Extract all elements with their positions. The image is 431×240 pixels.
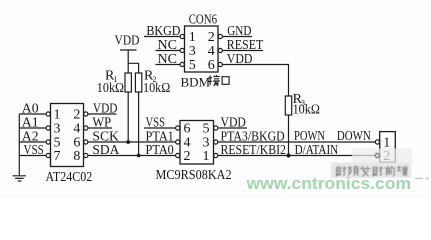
svg-text:CON6: CON6 <box>189 13 217 28</box>
pin 5 circle U1 <box>46 140 50 144</box>
svg-text:2: 2 <box>184 149 191 164</box>
glyph 前 <box>385 166 396 176</box>
wire GND stub J1 pin2 <box>223 36 253 38</box>
svg-text:2: 2 <box>73 108 80 123</box>
svg-text:BKGD: BKGD <box>146 24 180 39</box>
wire NC stub J1 pin3 <box>156 50 181 52</box>
svg-text:www.cntronics.com: www.cntronics.com <box>245 174 411 193</box>
pin 1 circle U2 <box>214 153 218 157</box>
wire R2 bottom to SDA <box>138 92 140 156</box>
svg-text:A0: A0 <box>22 101 39 116</box>
label 射频发射前端 (grey) <box>331 149 412 179</box>
pin 3 circle J1 <box>180 48 184 52</box>
pin 5 circle J1 <box>180 62 184 66</box>
svg-text:4: 4 <box>73 122 80 137</box>
pin 7 circle U1 <box>46 153 50 157</box>
glyph 发 <box>360 166 370 176</box>
pin 6 circle U2 <box>176 126 180 130</box>
svg-text:VDD: VDD <box>93 101 118 116</box>
pin 2 circle U2 <box>176 153 180 157</box>
connector J1 CON6 box <box>185 26 219 72</box>
pin 1 circle J3 <box>375 140 379 144</box>
wire VSS stub U2 pin6 <box>144 127 176 129</box>
pin 2 circle J3 <box>375 153 379 157</box>
wire left bus to ground <box>18 114 20 176</box>
svg-text:VSS: VSS <box>146 115 166 130</box>
svg-text:1: 1 <box>189 30 196 45</box>
svg-text:VDD: VDD <box>227 52 253 67</box>
glyph 口 <box>222 77 229 85</box>
ground <box>13 176 26 181</box>
svg-text:POWN: POWN <box>294 129 325 144</box>
pin 2 circle J1 <box>218 34 222 38</box>
svg-text:VDD: VDD <box>115 34 140 49</box>
wire SDA net U1 pin8 to U2 pin2 <box>88 155 176 157</box>
wire RESET stub J1 pin4 <box>223 50 264 52</box>
pin 2 circle U1 <box>84 112 88 116</box>
svg-text:4: 4 <box>208 44 215 59</box>
pin 4 circle U2 <box>176 140 180 144</box>
wire WP stub U1 pin4 <box>88 127 112 129</box>
svg-text:VDD: VDD <box>221 115 246 130</box>
junction R1-SCK <box>126 140 130 144</box>
svg-text:BDM: BDM <box>181 75 211 90</box>
pin 6 circle J1 <box>218 62 222 66</box>
svg-text:A1: A1 <box>22 115 39 130</box>
label BDM接口 <box>181 75 230 90</box>
glyph 射 <box>372 166 383 176</box>
glyph 频 <box>348 166 359 176</box>
wire VDD stub U2 pin5 <box>218 127 247 129</box>
svg-text:NC: NC <box>158 52 178 67</box>
svg-text:1: 1 <box>383 135 390 150</box>
IC U2 MC9RS08KA2 box <box>180 121 214 165</box>
pin 3 circle U2 <box>214 140 218 144</box>
wire VDD stub U1 pin2 <box>88 113 117 115</box>
svg-text:6: 6 <box>184 122 191 137</box>
pin 5 circle U2 <box>214 126 218 130</box>
resistor R2 body <box>135 73 141 92</box>
svg-text:1: 1 <box>203 149 210 164</box>
wire R1 bottom to SCK <box>127 92 129 142</box>
svg-text:5: 5 <box>203 122 210 137</box>
wire NC stub J1 pin5 <box>156 64 181 66</box>
pin 1 circle J1 <box>180 34 184 38</box>
pin 4 circle J1 <box>218 48 222 52</box>
svg-text:AT24C02: AT24C02 <box>46 170 93 185</box>
glyph 接 <box>208 75 220 86</box>
svg-text:8: 8 <box>73 149 80 164</box>
junction R2-SDA <box>137 154 141 158</box>
svg-text:1: 1 <box>54 108 61 123</box>
IC U1 AT24C02 box <box>51 104 84 167</box>
svg-text:GND: GND <box>227 24 251 39</box>
pin 6 circle U1 <box>84 140 88 144</box>
svg-text:RESET: RESET <box>227 38 264 53</box>
VDD power symbol bar <box>120 50 137 73</box>
connector J3 RF box <box>380 132 396 163</box>
svg-text:5: 5 <box>189 58 196 73</box>
wire A2 <box>19 141 46 143</box>
resistor R3 body <box>285 96 291 115</box>
svg-text:7: 7 <box>54 149 61 164</box>
svg-text:D/ATAIN: D/ATAIN <box>295 143 339 158</box>
svg-text:6: 6 <box>208 58 215 73</box>
glyph 端 <box>397 166 408 176</box>
wire BKGD stub J1 pin1 <box>144 36 180 38</box>
glyph 射 <box>336 166 347 176</box>
svg-text:10kΩ: 10kΩ <box>143 81 170 96</box>
junction R3-RESET <box>286 153 290 157</box>
wire A0 <box>19 113 46 115</box>
svg-text:3: 3 <box>189 44 196 59</box>
pin 8 circle U1 <box>84 153 88 157</box>
svg-text:VSS: VSS <box>24 143 44 158</box>
wire PTA3/BKGD net to J3 pin1 <box>218 141 375 143</box>
svg-text:NC: NC <box>158 38 178 53</box>
resistor R1 body <box>125 73 131 92</box>
wire VSS pin7 <box>19 155 46 157</box>
wire SCK net U1 pin6 to U2 pin4 <box>88 141 176 143</box>
wire VDD branch to R2 <box>128 63 138 73</box>
svg-text:PTA0: PTA0 <box>146 143 174 158</box>
svg-text:2: 2 <box>208 30 215 45</box>
pin 2 circle J3 re-stroke <box>375 153 379 157</box>
wire RESET/KBI2 net to J3 pin2 <box>218 155 375 157</box>
pin 4 circle U1 <box>84 126 88 130</box>
wire R3 bottom to RESET net <box>288 115 290 156</box>
svg-text:3: 3 <box>54 122 61 137</box>
svg-text:DOWN: DOWN <box>337 129 371 144</box>
wire VDD J1 pin6 to R3 <box>223 65 289 97</box>
svg-text:WP: WP <box>92 115 111 130</box>
pin 1 circle U1 <box>46 112 50 116</box>
wire A1 <box>19 127 46 129</box>
svg-text:10kΩ: 10kΩ <box>97 81 124 96</box>
svg-text:SDA: SDA <box>92 143 120 158</box>
svg-text:10kΩ: 10kΩ <box>293 102 320 117</box>
svg-text:MC9RS08KA2: MC9RS08KA2 <box>156 168 232 183</box>
pin 3 circle U1 <box>46 126 50 130</box>
svg-text:RESET/KBI2: RESET/KBI2 <box>221 143 286 158</box>
